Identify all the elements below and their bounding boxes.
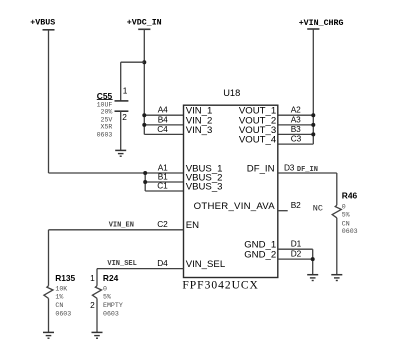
wire +VBUS vertical — [48, 30, 50, 173]
svg-text:D3: D3 — [284, 162, 295, 172]
value labels R46 — [342, 204, 358, 236]
node B3 junction — [311, 132, 315, 136]
svg-text:+VDC_IN: +VDC_IN — [127, 19, 162, 28]
svg-text:R46: R46 — [342, 190, 358, 200]
svg-text:A3: A3 — [291, 114, 301, 124]
wire pin B2 stub — [278, 210, 288, 212]
ground (R24) — [92, 332, 103, 338]
svg-text:0603: 0603 — [342, 228, 358, 235]
svg-text:+VBUS: +VBUS — [30, 19, 55, 28]
svg-text:0603: 0603 — [103, 310, 119, 317]
svg-text:DF_IN: DF_IN — [297, 166, 318, 174]
wire to pin B4 — [144, 124, 183, 126]
power symbol +VDC_IN — [127, 19, 162, 30]
svg-text:A4: A4 — [158, 105, 168, 115]
svg-text:B3: B3 — [291, 124, 301, 134]
wire pin B3 — [278, 133, 314, 135]
svg-text:A2: A2 — [291, 105, 301, 115]
node A2 junction — [311, 113, 315, 117]
svg-text:FPF3042UCX: FPF3042UCX — [182, 279, 258, 291]
wire pin A2 — [278, 114, 314, 116]
svg-text:C1: C1 — [157, 180, 168, 190]
svg-text:1: 1 — [123, 86, 128, 96]
svg-text:0: 0 — [103, 286, 107, 293]
value labels R24 — [103, 286, 123, 318]
svg-text:5%: 5% — [342, 211, 350, 218]
svg-text:VIN_SEL: VIN_SEL — [186, 259, 226, 270]
node D2 junction — [311, 257, 315, 261]
svg-text:CN: CN — [55, 302, 63, 309]
svg-text:C3: C3 — [291, 134, 302, 144]
svg-text:D1: D1 — [291, 239, 302, 249]
svg-text:VIN_3: VIN_3 — [186, 125, 213, 136]
wire VIN_SEL — [97, 269, 184, 286]
svg-text:VIN_EN: VIN_EN — [109, 222, 134, 230]
wire pin A3 — [278, 124, 314, 126]
svg-text:D4: D4 — [157, 258, 168, 268]
wire VBUS branch vertical — [144, 173, 146, 191]
ground (R135) — [43, 332, 54, 338]
wire +VBUS to pin A1 — [49, 172, 184, 174]
wire GND_1 — [278, 249, 313, 275]
svg-text:20%: 20% — [101, 109, 113, 116]
wire +VIN_CHRG vertical — [312, 29, 314, 144]
node A1 junction — [143, 171, 147, 175]
svg-text:2: 2 — [122, 112, 127, 122]
svg-text:OTHER_VIN_AVA: OTHER_VIN_AVA — [194, 201, 276, 212]
svg-text:C2: C2 — [157, 219, 168, 229]
resistor R135 — [44, 273, 76, 298]
svg-text:C4: C4 — [157, 124, 168, 134]
svg-text:B2: B2 — [291, 200, 301, 210]
wire to pin B1 — [145, 181, 183, 183]
IC U18 body — [184, 88, 278, 277]
svg-text:5%: 5% — [103, 293, 111, 300]
wire to pin C1 — [145, 190, 183, 192]
wire R46 to ground — [336, 218, 338, 275]
svg-text:VBUS_3: VBUS_3 — [186, 181, 223, 192]
value labels C55 — [97, 101, 113, 138]
svg-text:GND_2: GND_2 — [244, 250, 276, 261]
svg-text:2: 2 — [90, 300, 95, 310]
svg-text:D2: D2 — [291, 249, 302, 259]
wire R24 to ground — [96, 298, 98, 332]
power symbol +VBUS — [30, 19, 55, 30]
svg-text:VIN_SEL: VIN_SEL — [107, 260, 136, 268]
wire +VDC_IN vertical — [143, 29, 145, 134]
ground (R46) — [331, 275, 342, 281]
node B1 junction — [143, 180, 147, 184]
wire GND_2 — [278, 258, 313, 260]
wire to pin A4 — [144, 114, 183, 116]
power symbol +VIN_CHRG — [299, 19, 344, 29]
ground (GND pins) — [307, 275, 318, 281]
wire R135 to ground — [48, 298, 50, 332]
svg-text:EMPTY: EMPTY — [103, 302, 123, 309]
node C55 junction — [142, 60, 146, 64]
svg-text:X5R: X5R — [101, 124, 113, 131]
node B4 junction — [142, 123, 146, 127]
resistor R46 — [332, 190, 357, 218]
svg-text:R135: R135 — [55, 273, 75, 283]
svg-text:VOUT_4: VOUT_4 — [239, 135, 277, 146]
svg-text:CN: CN — [342, 220, 350, 227]
svg-text:1: 1 — [90, 273, 95, 283]
wire C55 feed — [121, 61, 145, 63]
wire to pin C4 — [144, 133, 183, 135]
svg-text:0: 0 — [342, 204, 346, 211]
svg-text:U18: U18 — [223, 88, 240, 98]
svg-text:10UF: 10UF — [97, 101, 113, 108]
svg-text:R24: R24 — [103, 273, 119, 283]
svg-text:DF_IN: DF_IN — [247, 163, 275, 174]
wire EN — [49, 230, 184, 286]
svg-text:25V: 25V — [101, 116, 113, 123]
value labels R135 — [55, 286, 71, 318]
node A3 junction — [311, 123, 315, 127]
svg-text:B4: B4 — [158, 114, 168, 124]
svg-text:NC: NC — [313, 204, 323, 214]
wire pin C3 — [278, 143, 314, 145]
svg-text:0603: 0603 — [97, 131, 113, 138]
capacitor C55 — [97, 62, 129, 150]
svg-text:EN: EN — [186, 220, 199, 231]
ground (C55) — [115, 150, 126, 156]
svg-text:10K: 10K — [55, 286, 67, 293]
node A4 junction — [142, 113, 146, 117]
resistor R24 — [92, 273, 118, 298]
svg-text:+VIN_CHRG: +VIN_CHRG — [299, 19, 344, 28]
wire DF_IN — [278, 173, 337, 205]
svg-text:0603: 0603 — [55, 310, 71, 317]
svg-text:1%: 1% — [55, 293, 63, 300]
